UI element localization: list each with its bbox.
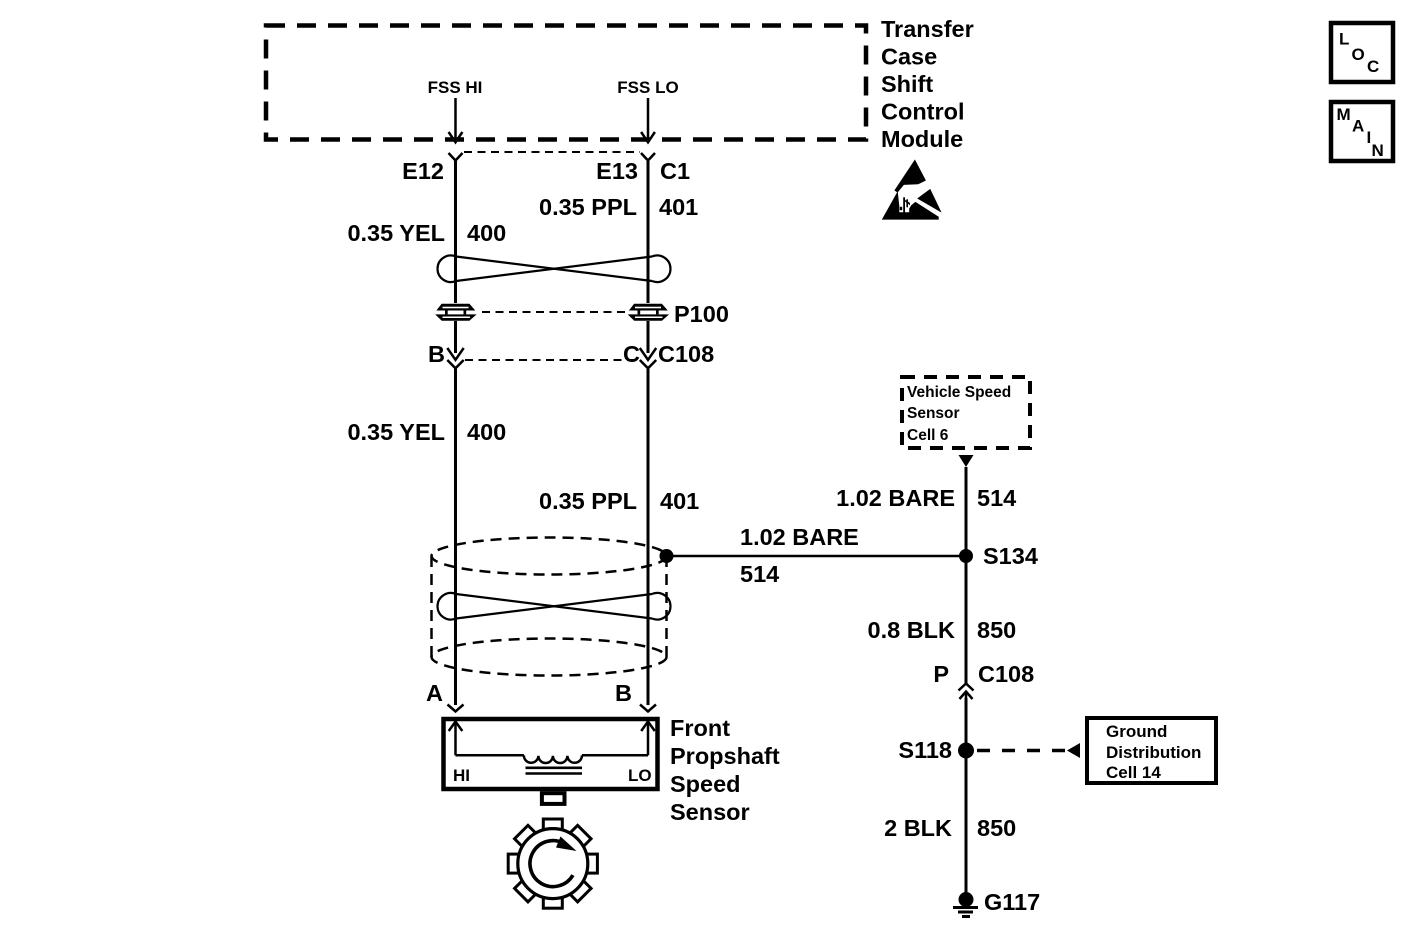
svg-text:Transfer: Transfer [881,16,974,42]
svg-text:N: N [1372,141,1384,160]
connector E12 (female Y) [449,153,463,161]
svg-text:Distribution: Distribution [1106,743,1201,762]
svg-text:S134: S134 [983,543,1038,569]
ESD sensitivity symbol [882,160,942,220]
reference box: Ground Distribution Cell 14 [1087,718,1216,783]
reference box: Vehicle Speed Sensor Cell 6 (dashed) [902,377,1030,448]
reluctor wheel (gear) [508,819,597,908]
svg-text:P: P [933,661,949,687]
svg-text:Cell 14: Cell 14 [1106,763,1161,782]
dashed reference arrow from S118 to Ground Distribution [977,749,1066,753]
svg-text:FSS HI: FSS HI [428,78,483,97]
svg-text:Sensor: Sensor [907,405,960,422]
svg-text:0.35 PPL: 0.35 PPL [539,488,637,514]
dashed connector tie line E12-E13 [464,151,640,153]
svg-text:P100: P100 [674,301,729,327]
svg-text:401: 401 [659,194,698,220]
svg-text:0.35 PPL: 0.35 PPL [539,194,637,220]
inline connector P100 (right half, circuit 401) [628,304,669,321]
svg-text:Control: Control [881,99,965,125]
svg-text:400: 400 [467,220,506,246]
svg-text:Vehicle Speed: Vehicle Speed [907,384,1011,401]
svg-text:E12: E12 [402,158,444,184]
wire: circuit 401 PPL from E13 to P100 [647,161,650,303]
wire: 1.02 BARE 514 horizontal to S134 [667,555,967,558]
ground G117 [953,892,978,917]
svg-text:A: A [426,680,443,706]
wire: circuit 401 from P100 to C108 [647,321,650,353]
shield (dashed cylinder) around twisted pair [432,538,667,676]
wire: FSS HI pin arrow (down) [449,98,463,142]
dashed tie line C108 [465,359,638,361]
svg-text:Shift: Shift [881,71,933,97]
junction: shield drain to S134 wire [660,549,674,563]
svg-text:B: B [428,341,445,367]
svg-text:0.35 YEL: 0.35 YEL [347,419,445,445]
connector E13 (female Y) [641,153,655,161]
svg-text:C108: C108 [658,341,714,367]
dashed tie line P100 [482,311,626,313]
sensor stub to reluctor [542,793,565,804]
svg-text:Ground: Ground [1106,722,1167,741]
svg-text:LO: LO [628,766,652,785]
connector C108 pin P (female chevron + male arrow up) [959,684,974,701]
wire: FSS LO pin arrow (down) [641,98,655,142]
svg-text:E13: E13 [596,158,638,184]
connector A (female Y at sensor) [448,705,464,712]
svg-text:FSS LO: FSS LO [617,78,678,97]
svg-text:400: 400 [467,419,506,445]
inline connector P100 (left half, circuit 400) [435,304,476,321]
svg-text:0.35 YEL: 0.35 YEL [347,220,445,246]
svg-text:850: 850 [977,815,1016,841]
sensor coil core lines [526,766,583,769]
label: Front Propshaft Speed Sensor [670,715,780,825]
svg-text:1.02 BARE: 1.02 BARE [836,485,955,511]
wire: 0.8 BLK 850 from S134 to C108 [965,556,968,683]
page tab: LOC [1331,23,1393,82]
wire: circuit 400 from P100 to C108 [454,321,457,353]
svg-text:S118: S118 [898,737,952,763]
svg-text:1.02 BARE: 1.02 BARE [740,524,859,550]
wire: 514 from VSS to S134 [965,467,968,556]
twisted pair symbol (upper) [438,255,671,282]
svg-text:Speed: Speed [670,771,741,797]
sensor internal pin arrow B (up) [641,722,655,756]
rotation arrow inside gear [530,841,573,887]
svg-text:514: 514 [740,561,779,587]
svg-text:B: B [615,680,632,706]
svg-text:Case: Case [881,44,937,70]
arrow from Vehicle Speed Sensor box (filled triangle down) [959,455,974,467]
svg-text:514: 514 [977,485,1016,511]
svg-text:Cell 6: Cell 6 [907,427,949,444]
svg-text:G117: G117 [984,889,1040,915]
svg-text:M: M [1337,105,1351,124]
svg-text:Module: Module [881,126,963,152]
svg-text:O: O [1352,45,1365,64]
sensor internal pin arrow A (up) [449,722,463,756]
twisted pair symbol (lower) [438,593,671,620]
component box: Front Propshaft Speed Sensor [444,719,658,789]
svg-text:L: L [1339,30,1349,49]
wire: from C108 to S118 [965,698,968,750]
module box: Transfer Case Shift Control Module (dashed) [266,26,866,140]
page tab: MAIN [1331,102,1393,161]
connector B (female Y at sensor) [640,705,656,712]
wire: circuit 400 from C108 to sensor [454,368,457,705]
splice S118 [958,743,974,759]
connector C108 pin B (male arrow down) [447,348,463,368]
label: Vehicle Speed Sensor Cell 6 [907,384,1011,444]
connector C108 pin C (male arrow down) [640,348,656,368]
svg-text:C: C [623,341,640,367]
svg-text:HI: HI [453,766,470,785]
svg-text:2 BLK: 2 BLK [884,815,952,841]
wire: circuit 401 from C108 to sensor [647,368,650,705]
svg-text:850: 850 [977,617,1016,643]
svg-text:Propshaft: Propshaft [670,743,780,769]
svg-text:Sensor: Sensor [670,799,750,825]
label: Transfer Case Shift Control Module [881,16,974,152]
svg-text:C108: C108 [978,661,1034,687]
splice S134 [959,549,973,563]
wire: circuit 400 YEL from E12 to P100 [454,161,457,303]
sensor internal wire + coil [456,755,649,763]
svg-text:401: 401 [660,488,699,514]
wire: 2 BLK 850 from S118 to G117 [965,750,968,899]
label: Ground Distribution Cell 14 [1106,722,1201,782]
svg-text:Front: Front [670,715,730,741]
svg-text:A: A [1352,117,1364,136]
svg-text:C1: C1 [660,158,690,184]
svg-text:0.8 BLK: 0.8 BLK [868,617,956,643]
svg-text:C: C [1367,57,1379,76]
